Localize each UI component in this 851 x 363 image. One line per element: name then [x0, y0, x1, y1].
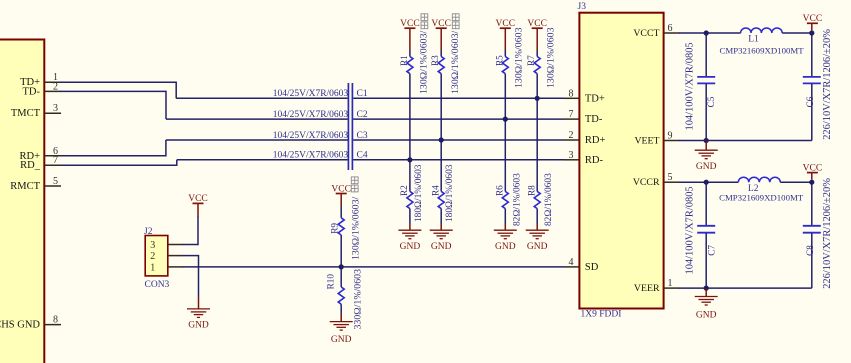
wire C2 to J3: [353, 118, 564, 120]
svg-text:6: 6: [668, 23, 673, 34]
pin 1 TD+ of left box: [20, 72, 61, 88]
svg-text:8: 8: [569, 88, 574, 99]
VCC power symbol above R5: [496, 19, 516, 50]
junction node tap R5/R6: [503, 117, 508, 122]
capacitor C8: [803, 226, 821, 288]
svg-text:GND: GND: [696, 162, 717, 172]
resistor R8: [527, 185, 541, 224]
svg-text:2: 2: [53, 81, 58, 92]
inductor L1: [741, 28, 783, 44]
svg-text:GND: GND: [495, 242, 516, 252]
resistor R4: [431, 185, 445, 224]
svg-text:RD+: RD+: [585, 135, 606, 146]
svg-text:104/25V/X7R/0603: 104/25V/X7R/0603: [273, 151, 349, 161]
VCC power symbol above R7: [527, 19, 547, 50]
svg-text:104/25V/X7R/0603: 104/25V/X7R/0603: [273, 110, 349, 120]
ground symbol below J2: [187, 297, 210, 331]
ground symbol below VEET: [695, 141, 718, 172]
wire L2 to VCC corner down to C8: [780, 181, 812, 226]
svg-text:R5: R5: [494, 55, 504, 66]
VCC power symbol above R9: [331, 184, 351, 206]
wire C4 to J3: [353, 159, 564, 161]
junction node tap R7/R8: [535, 96, 540, 101]
svg-text:5: 5: [53, 176, 58, 187]
resistor R10: [326, 267, 345, 314]
junction node SD net R9/R10: [339, 264, 344, 269]
svg-text:R8: R8: [527, 185, 537, 196]
svg-text:330Ω/1%/0603: 330Ω/1%/0603: [353, 269, 364, 330]
svg-text:VCCT: VCCT: [633, 28, 659, 39]
svg-text:RD-: RD-: [585, 155, 604, 166]
VCC power symbol above R3: [431, 19, 451, 50]
wire RD+ pin6 to C3: [61, 140, 348, 157]
resistor R2: [399, 185, 413, 224]
svg-text:2: 2: [150, 251, 155, 262]
svg-text:7: 7: [569, 109, 574, 120]
svg-text:J2: J2: [144, 227, 153, 237]
svg-text:R10: R10: [326, 274, 336, 290]
wire TD+ pin1 to C1: [61, 82, 348, 99]
svg-text:7: 7: [53, 155, 58, 166]
resistor R3: [430, 50, 444, 191]
pin 3 RD- of J3: [564, 150, 603, 166]
VCC power symbol lower right: [803, 163, 823, 179]
svg-text:130Ω/1%/0603/: 130Ω/1%/0603/: [450, 30, 461, 94]
junction node tap R3/R4: [439, 137, 444, 142]
svg-text:GND: GND: [431, 242, 452, 252]
svg-text:R2: R2: [399, 185, 409, 196]
svg-text:TD+: TD+: [585, 93, 605, 104]
resistor R7: [526, 50, 540, 191]
svg-text:130Ω/1%/0603: 130Ω/1%/0603: [546, 27, 557, 88]
svg-text:R3: R3: [430, 55, 440, 66]
svg-text:3: 3: [150, 240, 155, 251]
pin 2 RD+ of J3: [564, 130, 605, 146]
pin 7 TD- of J3: [564, 109, 603, 125]
ground symbol below R10: [330, 314, 353, 345]
svg-text:R7: R7: [526, 55, 536, 66]
svg-text:RD_: RD_: [20, 160, 41, 171]
junction node VCC/L2/C8: [809, 180, 814, 185]
junction node VCCR/C7: [704, 180, 709, 185]
value 130Ω/1%/0603/不焊 of R1: [419, 14, 430, 94]
svg-text:GND: GND: [527, 242, 548, 252]
VCC power symbol above J2: [188, 194, 208, 216]
pin 6 VCCT of J3: [633, 23, 679, 39]
svg-text:226/10V/X7R/1206/±20%: 226/10V/X7R/1206/±20%: [822, 178, 833, 289]
resistor R5: [494, 50, 508, 191]
svg-text:VCCR: VCCR: [633, 177, 660, 188]
wire L1 to VCC corner down to C6: [782, 32, 812, 77]
svg-text:82Ω/1%/0603: 82Ω/1%/0603: [512, 173, 522, 226]
junction node VCCT/C5: [704, 30, 709, 35]
pin 7 RD_ of left box: [20, 155, 61, 171]
resistor R9: [330, 206, 345, 267]
pin 1 VEER of J3: [634, 278, 680, 294]
svg-text:VEER: VEER: [634, 283, 660, 294]
wire C3 to J3: [353, 139, 564, 141]
VCC power symbol above R1: [400, 19, 420, 50]
svg-text:VEET: VEET: [634, 136, 659, 147]
capacitor C5: [697, 33, 716, 141]
svg-text:130Ω/1%/0603: 130Ω/1%/0603: [514, 27, 525, 88]
pin 3 of J2: [150, 240, 183, 251]
junction node VEER/C7/GND: [704, 286, 709, 291]
ground symbol below R2: [398, 224, 421, 252]
svg-text:L1: L1: [748, 34, 759, 44]
capacitor C7: [697, 182, 717, 288]
VCC power symbol top right: [803, 14, 823, 30]
svg-text:CHS GND: CHS GND: [0, 320, 40, 331]
pin 1 of J2: [150, 262, 183, 273]
resistor R1: [399, 50, 413, 191]
svg-text:104/25V/X7R/0603: 104/25V/X7R/0603: [273, 131, 349, 141]
svg-text:TMCT: TMCT: [11, 108, 41, 119]
svg-text:3: 3: [569, 150, 574, 161]
capacitors C1 C2 C3 C4 plates: [348, 83, 352, 170]
svg-text:104/25V/X7R/0603: 104/25V/X7R/0603: [273, 89, 349, 99]
ground symbol below VEER: [695, 288, 718, 320]
svg-text:GND: GND: [696, 310, 717, 320]
svg-text:1: 1: [150, 262, 155, 273]
svg-text:1X9 FDDI: 1X9 FDDI: [581, 310, 622, 320]
resistor R6: [495, 185, 509, 224]
svg-text:TD-: TD-: [585, 114, 603, 125]
value 130Ω/1%/0603/不焊 of R9: [351, 177, 362, 260]
svg-text:R4: R4: [431, 185, 441, 196]
connector J3 1X9 FDDI box: [579, 13, 663, 309]
svg-text:180Ω/1%/0603: 180Ω/1%/0603: [445, 164, 455, 222]
connector J2 CON3 box: [145, 236, 168, 276]
svg-text:CMP321609XD100MT: CMP321609XD100MT: [720, 45, 805, 55]
wire VEER rail: [679, 287, 812, 289]
svg-text:C7: C7: [707, 245, 717, 256]
svg-text:GND: GND: [400, 242, 421, 252]
pin 6 RD+ of left box: [19, 146, 61, 162]
pin 3 TMCT of left box: [11, 103, 61, 119]
svg-text:104/100V/X7R/0805: 104/100V/X7R/0805: [684, 186, 695, 274]
svg-text:C6: C6: [805, 96, 815, 107]
svg-text:130Ω/1%/0603/: 130Ω/1%/0603/: [351, 196, 362, 260]
junction node tap R1/R2: [407, 157, 412, 162]
pin 8 TD+ of J3: [564, 88, 605, 104]
pin 8 CHS GND of left box: [0, 315, 61, 331]
svg-text:R1: R1: [399, 55, 409, 66]
svg-text:R6: R6: [495, 185, 505, 196]
svg-text:J3: J3: [578, 2, 587, 12]
svg-text:C5: C5: [706, 96, 716, 107]
svg-text:8: 8: [53, 315, 58, 326]
value 130Ω/1%/0603/不焊 of R3: [450, 14, 461, 94]
svg-text:CMP321609XD100MT: CMP321609XD100MT: [719, 193, 804, 203]
svg-text:TD-: TD-: [23, 86, 41, 97]
svg-text:130Ω/1%/0603/: 130Ω/1%/0603/: [419, 30, 430, 94]
inductor L2: [738, 177, 780, 194]
wire J2 pin2 to GND: [183, 255, 199, 297]
svg-text:C8: C8: [805, 245, 815, 256]
wire C1 to J3: [353, 97, 564, 99]
pin 9 VEET of J3: [634, 131, 679, 147]
pin 4 SD of J3: [564, 257, 599, 273]
svg-text:226/10V/X7R/1206/±20%: 226/10V/X7R/1206/±20%: [822, 29, 833, 140]
svg-text:3: 3: [53, 103, 58, 114]
pin 2 of J2: [150, 251, 183, 262]
svg-text:180Ω/1%/0603: 180Ω/1%/0603: [414, 164, 424, 222]
svg-text:5: 5: [668, 172, 673, 183]
ground symbol below R4: [430, 224, 453, 252]
pin 2 TD- of left box: [23, 81, 62, 97]
wire VCCT pin6 to L1: [679, 32, 741, 34]
pin 5 RMCT of left box: [10, 176, 61, 192]
svg-text:104/100V/X7R/0805: 104/100V/X7R/0805: [684, 42, 695, 130]
wire VEET rail: [679, 140, 812, 142]
svg-text:2: 2: [569, 130, 574, 141]
wire SD net J2 pin1 to J3 pin4: [183, 266, 565, 268]
svg-text:4: 4: [569, 257, 574, 268]
wire RD- pin7 to C4: [61, 160, 348, 166]
svg-text:GND: GND: [331, 335, 352, 345]
wire TD- pin2 to C2: [61, 91, 348, 119]
svg-text:SD: SD: [585, 262, 599, 273]
svg-text:9: 9: [668, 131, 673, 142]
svg-text:1: 1: [668, 278, 673, 289]
ground symbol below R6: [494, 224, 517, 252]
left transformer box: [0, 40, 44, 363]
svg-text:GND: GND: [188, 321, 209, 331]
svg-text:82Ω/1%/0603: 82Ω/1%/0603: [544, 173, 554, 226]
wire J2 pin3 to VCC: [183, 216, 199, 245]
svg-text:CON3: CON3: [145, 280, 170, 290]
svg-text:RMCT: RMCT: [10, 181, 40, 192]
svg-text:R9: R9: [330, 223, 340, 234]
pin 5 VCCR of J3: [633, 172, 680, 188]
junction node VEET/C5/GND: [704, 138, 709, 143]
capacitor C6: [803, 77, 821, 141]
junction node VCC/L1/C6: [809, 30, 814, 35]
ground symbol below R8: [526, 224, 549, 252]
wire VCCR pin5 to L2: [679, 181, 738, 183]
